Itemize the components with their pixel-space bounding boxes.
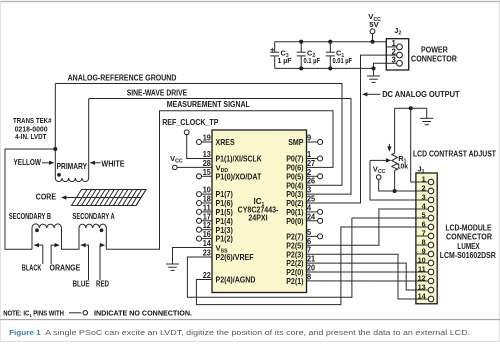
IC1 pin 1 P0(7) — [286, 150, 322, 164]
svg-text:26: 26 — [307, 177, 316, 186]
wire primary right vertical (WHITE lead) — [88, 99, 90, 179]
node RED lead label — [96, 243, 109, 289]
wire VSS pin14 to ground — [173, 248, 213, 265]
svg-text:1 µF: 1 µF — [278, 56, 292, 65]
svg-text:P2(6)/VREF: P2(6)/VREF — [216, 252, 254, 262]
connector J1 pin 7 — [416, 228, 434, 238]
svg-text:0.01 µF: 0.01 µF — [333, 56, 353, 65]
svg-text:6: 6 — [307, 237, 312, 246]
connector J1 pin 6 — [416, 219, 434, 229]
transformer T1 core (hatched bar) — [72, 190, 147, 206]
svg-text:15: 15 — [203, 168, 212, 177]
svg-text:DC ANALOG OUTPUT: DC ANALOG OUTPUT — [382, 90, 459, 99]
page left edge — [0, 2, 2, 341]
svg-text:4-IN. LVDT: 4-IN. LVDT — [15, 132, 47, 141]
svg-text:1: 1 — [307, 150, 312, 159]
wire VCC top rail — [275, 40, 387, 44]
wire MEASUREMENT SIGNAL net (secondary-A-right to P0(6) pin 27) — [106, 111, 333, 250]
svg-text:18: 18 — [203, 195, 212, 204]
power VCC terminal at J1 pin2 — [373, 164, 416, 191]
IC1 pin 16 P1(2) — [197, 230, 233, 244]
svg-text:BLUE: BLUE — [73, 280, 90, 289]
op-amp/IC U1 CY8C27443 body — [212, 130, 307, 293]
IC1 pin 10 P1(7) — [197, 186, 233, 200]
node SECONDARY B label — [9, 212, 51, 221]
wire P2(6)/VREF pin23 to J1 pin 5 — [187, 218, 416, 297]
wire P2(4)/AGND pin22 to J1 pin 6 — [196, 227, 416, 305]
svg-text:P1(0)/XO/DAT: P1(0)/XO/DAT — [216, 171, 262, 181]
svg-text:14: 14 — [203, 239, 212, 248]
svg-text:A single PSoC can excite an LV: A single PSoC can excite an LVDT, digiti… — [45, 328, 470, 337]
IC1 pin 11 P1(5) — [197, 203, 233, 217]
svg-text:RED: RED — [96, 280, 109, 289]
node junction R1 bottom / VCC / J1 pin2 — [393, 189, 397, 193]
svg-text:12: 12 — [418, 273, 426, 282]
svg-text:6: 6 — [422, 219, 426, 228]
svg-text:24: 24 — [307, 212, 316, 221]
svg-text:16: 16 — [203, 230, 212, 239]
connector J1 pin 12 — [416, 273, 434, 283]
ground symbol right of R1 — [420, 118, 433, 124]
IC1 pin 26 P0(4) — [286, 177, 315, 191]
IC1 pin 5 P2(7) — [286, 228, 322, 242]
wire secondary B left terminal — [31, 228, 33, 249]
connector J1 pin 10 — [416, 255, 434, 265]
IC1 pin 19 XRES — [197, 134, 236, 148]
caption Figure 1 text — [9, 328, 470, 337]
transformer T1 primary phasing dot — [57, 173, 61, 177]
wire secondary B / secondary A inner series link — [62, 228, 80, 249]
svg-text:CORE: CORE — [36, 193, 56, 202]
node DC ANALOG OUTPUT label — [362, 90, 460, 99]
svg-text:11: 11 — [203, 203, 212, 212]
node PRIMARY label — [57, 162, 88, 171]
svg-text:VCC​: VCC​ — [373, 164, 386, 175]
caption rule — [0, 319, 500, 321]
IC1 pin 4 P0(1) — [286, 203, 322, 217]
IC1 pin 3 P0(3) — [286, 186, 311, 200]
wire secondary A right terminal — [105, 228, 107, 249]
node ANALOG-REFERENCE GROUND label — [68, 73, 177, 82]
wire P2(1) pin8 to J1 pin 12 — [307, 280, 416, 282]
connector J1 pin 11 — [416, 264, 434, 274]
IC1 pin 25 P0(2) — [286, 195, 315, 209]
page right edge — [498, 2, 500, 341]
svg-text:10: 10 — [203, 186, 212, 195]
svg-text:P1(1)/XI/SCLK: P1(1)/XI/SCLK — [216, 154, 262, 164]
svg-text:25: 25 — [307, 195, 316, 204]
IC1 pin 9 SMP — [288, 134, 322, 148]
IC1 pin 23 P2(6)/VREF — [203, 249, 254, 263]
IC1 pin 27 P0(6) — [286, 159, 315, 173]
svg-text:LCD-MODULE: LCD-MODULE — [445, 224, 491, 233]
node WHITE lead label — [90, 160, 125, 169]
transformer T1 secondary B phasing dot — [35, 228, 39, 232]
svg-text:BLACK: BLACK — [22, 264, 42, 273]
svg-text:5: 5 — [307, 228, 312, 237]
IC1 pin 15 P1(0)/XO/DAT — [197, 168, 262, 182]
svg-text:P2(4)/AGND: P2(4)/AGND — [216, 275, 256, 285]
svg-text:19: 19 — [203, 134, 212, 143]
svg-text:LCM-S01602DSR: LCM-S01602DSR — [440, 251, 496, 260]
svg-text:12: 12 — [203, 221, 212, 230]
IC1 pin 13 P1(1)/XI/SCLK — [203, 150, 262, 164]
wire ANALOG-REFERENCE GROUND net (primary-left to P0(4) pin 26) — [55, 84, 342, 186]
svg-text:SMP: SMP — [288, 137, 304, 147]
IC1 pin 12 P1(3) — [197, 221, 233, 235]
wire pot-top / ground / J1 pin1 net — [395, 106, 427, 182]
IC1 name label — [238, 197, 279, 222]
svg-text:1: 1 — [422, 174, 426, 183]
wire P2(0) pin20 to J1 pin 11 — [307, 271, 416, 273]
svg-text:P0(0): P0(0) — [286, 216, 303, 226]
svg-text:SECONDARY A: SECONDARY A — [73, 212, 115, 221]
ground symbol below pin 14 — [166, 264, 179, 270]
svg-text:23: 23 — [203, 249, 212, 258]
wire P0(2) pin25 to J2 pin 2 (DC analog output) — [307, 55, 387, 203]
capacitor C3 1uF (polarized) — [270, 42, 292, 69]
connector J2 pin 1 — [386, 39, 402, 50]
node junction primary-left / secondary-B loop — [53, 147, 57, 151]
connector J1 pin 8 — [416, 237, 434, 247]
node SINE-WAVE DRIVE label — [127, 89, 188, 98]
wire ground bottom rail — [275, 66, 376, 70]
svg-text:10: 10 — [418, 255, 426, 264]
ground symbol below J2 — [367, 68, 380, 82]
svg-text:ANALOG-REFERENCE GROUND: ANALOG-REFERENCE GROUND — [68, 73, 177, 82]
svg-text:P2(1): P2(1) — [286, 276, 303, 286]
svg-text:LUMEX: LUMEX — [457, 242, 480, 251]
node LCD-MODULE CONNECTOR LUMEX LCM-S01602DSR label — [440, 224, 496, 260]
svg-text:14: 14 — [418, 291, 427, 300]
svg-text:7: 7 — [422, 228, 426, 237]
svg-text:LCD CONTRAST ADJUST: LCD CONTRAST ADJUST — [413, 150, 496, 159]
svg-text:5: 5 — [422, 210, 426, 219]
node NOTE no-connection legend — [3, 308, 192, 319]
svg-text:9: 9 — [422, 246, 426, 255]
connector J1 pin 14 — [416, 291, 434, 301]
svg-text:INDICATE NO CONNECTION.: INDICATE NO CONNECTION. — [94, 308, 192, 317]
power VCC terminal at pin 28 — [170, 154, 212, 170]
svg-text:3: 3 — [391, 56, 396, 65]
page top border — [0, 1, 500, 3]
transformer T1 secondary A phasing dot — [100, 228, 104, 232]
svg-text:J2​: J2​ — [394, 26, 401, 37]
connector J1 pin 9 — [416, 246, 434, 256]
svg-text:POWER: POWER — [421, 45, 448, 54]
svg-text:13: 13 — [418, 282, 426, 291]
node TRANS TEK# 0218-0000 4-IN. LVDT label — [13, 116, 52, 141]
IC1 pin 7 P2(3) — [286, 246, 311, 260]
svg-text:2: 2 — [422, 183, 426, 192]
power VCC 5V terminal — [368, 12, 381, 42]
IC1 pin 20 P2(0) — [286, 264, 315, 278]
svg-text:21: 21 — [307, 255, 316, 264]
connector J2 pin 3 — [386, 56, 402, 67]
node ORANGE lead label — [50, 243, 81, 273]
test point REF_CLOCK_TP circle — [184, 130, 189, 135]
svg-text:10k: 10k — [397, 161, 409, 170]
node BLUE lead label — [73, 243, 90, 289]
svg-text:27: 27 — [307, 159, 316, 168]
transformer T1 primary winding — [55, 178, 88, 182]
svg-text:YELLOW: YELLOW — [14, 158, 42, 167]
svg-text:17: 17 — [203, 212, 212, 221]
svg-text:7: 7 — [307, 246, 312, 255]
wire loop secondary-B-left to primary-left — [5, 149, 55, 249]
svg-text:13: 13 — [203, 150, 212, 159]
connector J2 body — [386, 26, 408, 70]
svg-text:3: 3 — [307, 186, 312, 195]
IC1 pin 24 P0(0) — [286, 212, 322, 226]
transformer T1 secondary B winding — [32, 224, 62, 228]
wire R1 wiper to J1 pin 3 — [370, 158, 416, 200]
svg-text:P1(2): P1(2) — [216, 234, 233, 244]
svg-text:Figure 1: Figure 1 — [9, 328, 41, 337]
svg-text:MEASUREMENT SIGNAL: MEASUREMENT SIGNAL — [167, 100, 250, 109]
wire SINE-WAVE DRIVE net (primary-right to P0(3) pin 3) — [89, 99, 351, 195]
svg-text:8: 8 — [422, 237, 426, 246]
svg-text:22: 22 — [203, 271, 212, 280]
svg-text:9: 9 — [307, 134, 312, 143]
node CORE label with leader arrow — [36, 193, 79, 202]
node MEASUREMENT SIGNAL label — [167, 100, 250, 109]
connector J1 pin 5 — [416, 210, 434, 220]
IC1 pin 18 P1(6) — [197, 195, 233, 209]
svg-text:20: 20 — [307, 264, 316, 273]
IC1 pin 14 VSS — [203, 239, 228, 254]
svg-text:0.1 µF: 0.1 µF — [304, 56, 321, 65]
IC1 pin 22 P2(4)/AGND — [203, 271, 256, 285]
connector J1 body — [416, 164, 437, 303]
resistor R1 10k potentiometer — [387, 108, 409, 191]
connector J1 pin 13 — [416, 282, 434, 292]
node YELLOW lead label — [14, 158, 55, 167]
page bottom edge — [0, 340, 500, 342]
IC1 pin 21 P2(2) — [286, 255, 315, 269]
svg-text:VCC​: VCC​ — [170, 154, 183, 165]
connector J1 pin 3 — [416, 192, 434, 202]
node BLACK lead label — [22, 243, 43, 273]
svg-text:PRIMARY: PRIMARY — [57, 162, 88, 171]
svg-text:2: 2 — [307, 168, 312, 177]
svg-text:SECONDARY B: SECONDARY B — [9, 212, 51, 221]
svg-text:24PXI: 24PXI — [248, 212, 267, 222]
IC1 pin 28 VDD — [203, 159, 229, 174]
wire primary left vertical (YELLOW lead) — [54, 84, 56, 179]
capacitor C2 0.1uF — [297, 40, 321, 71]
svg-text:CONNECTOR: CONNECTOR — [446, 233, 492, 242]
svg-text:REF_CLOCK_TP: REF_CLOCK_TP — [162, 118, 218, 127]
svg-text:28: 28 — [203, 159, 212, 168]
svg-text:NOTE: IC1​ PINS WITH: NOTE: IC1​ PINS WITH — [3, 308, 64, 319]
node POWER CONNECTOR label — [411, 45, 457, 63]
svg-text:4: 4 — [307, 203, 312, 212]
connector J1 pin 4 — [416, 201, 434, 211]
node REF_CLOCK_TP label — [162, 118, 218, 127]
svg-text:SINE-WAVE DRIVE: SINE-WAVE DRIVE — [127, 89, 188, 98]
node LCD CONTRAST ADJUST label — [413, 150, 496, 159]
IC1 pin 8 P2(1) — [286, 272, 311, 286]
svg-text:ORANGE: ORANGE — [50, 264, 81, 273]
wire J2 pin3 to ground rail — [374, 63, 387, 68]
wire P2(2) pin21 to J1 pin 13 — [307, 263, 416, 290]
svg-text:WHITE: WHITE — [101, 160, 124, 169]
connector J2 pin 2 — [386, 47, 402, 58]
IC1 pin 17 P1(4) — [197, 212, 233, 226]
svg-text:11: 11 — [418, 264, 426, 273]
connector J1 pin 2 — [416, 183, 434, 193]
node SECONDARY A label — [73, 212, 115, 221]
svg-text:XRES: XRES — [216, 137, 236, 147]
svg-text:3: 3 — [422, 192, 426, 201]
IC1 pin 2 P0(5) — [286, 168, 322, 182]
capacitor C1 0.01uF — [326, 40, 353, 71]
transformer T1 secondary A winding — [79, 224, 106, 228]
svg-text:CONNECTOR: CONNECTOR — [411, 54, 457, 63]
svg-text:5V: 5V — [369, 20, 379, 29]
wire P1(1) pin13 to REF_CLOCK_TP — [187, 135, 212, 159]
connector J1 pin 1 — [416, 174, 434, 184]
svg-text:8: 8 — [307, 272, 312, 281]
wire P2(3) pin7 to J1 pin 14 — [307, 254, 416, 299]
wire P2(5) pin6 to J1 pin 4 — [307, 209, 416, 245]
IC1 pin 6 P2(5) — [286, 237, 311, 251]
